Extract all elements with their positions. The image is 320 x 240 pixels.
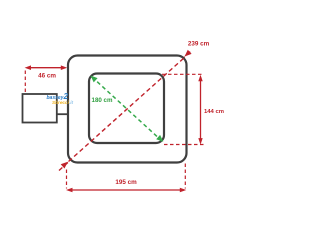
svg-text:Sbrecci.it: Sbrecci.it	[52, 100, 74, 105]
svg-text:46 cm: 46 cm	[38, 72, 56, 79]
svg-text:195 cm: 195 cm	[115, 179, 137, 186]
svg-text:239 cm: 239 cm	[188, 40, 210, 47]
svg-text:144 cm: 144 cm	[204, 109, 224, 115]
svg-text:180 cm: 180 cm	[92, 97, 113, 104]
